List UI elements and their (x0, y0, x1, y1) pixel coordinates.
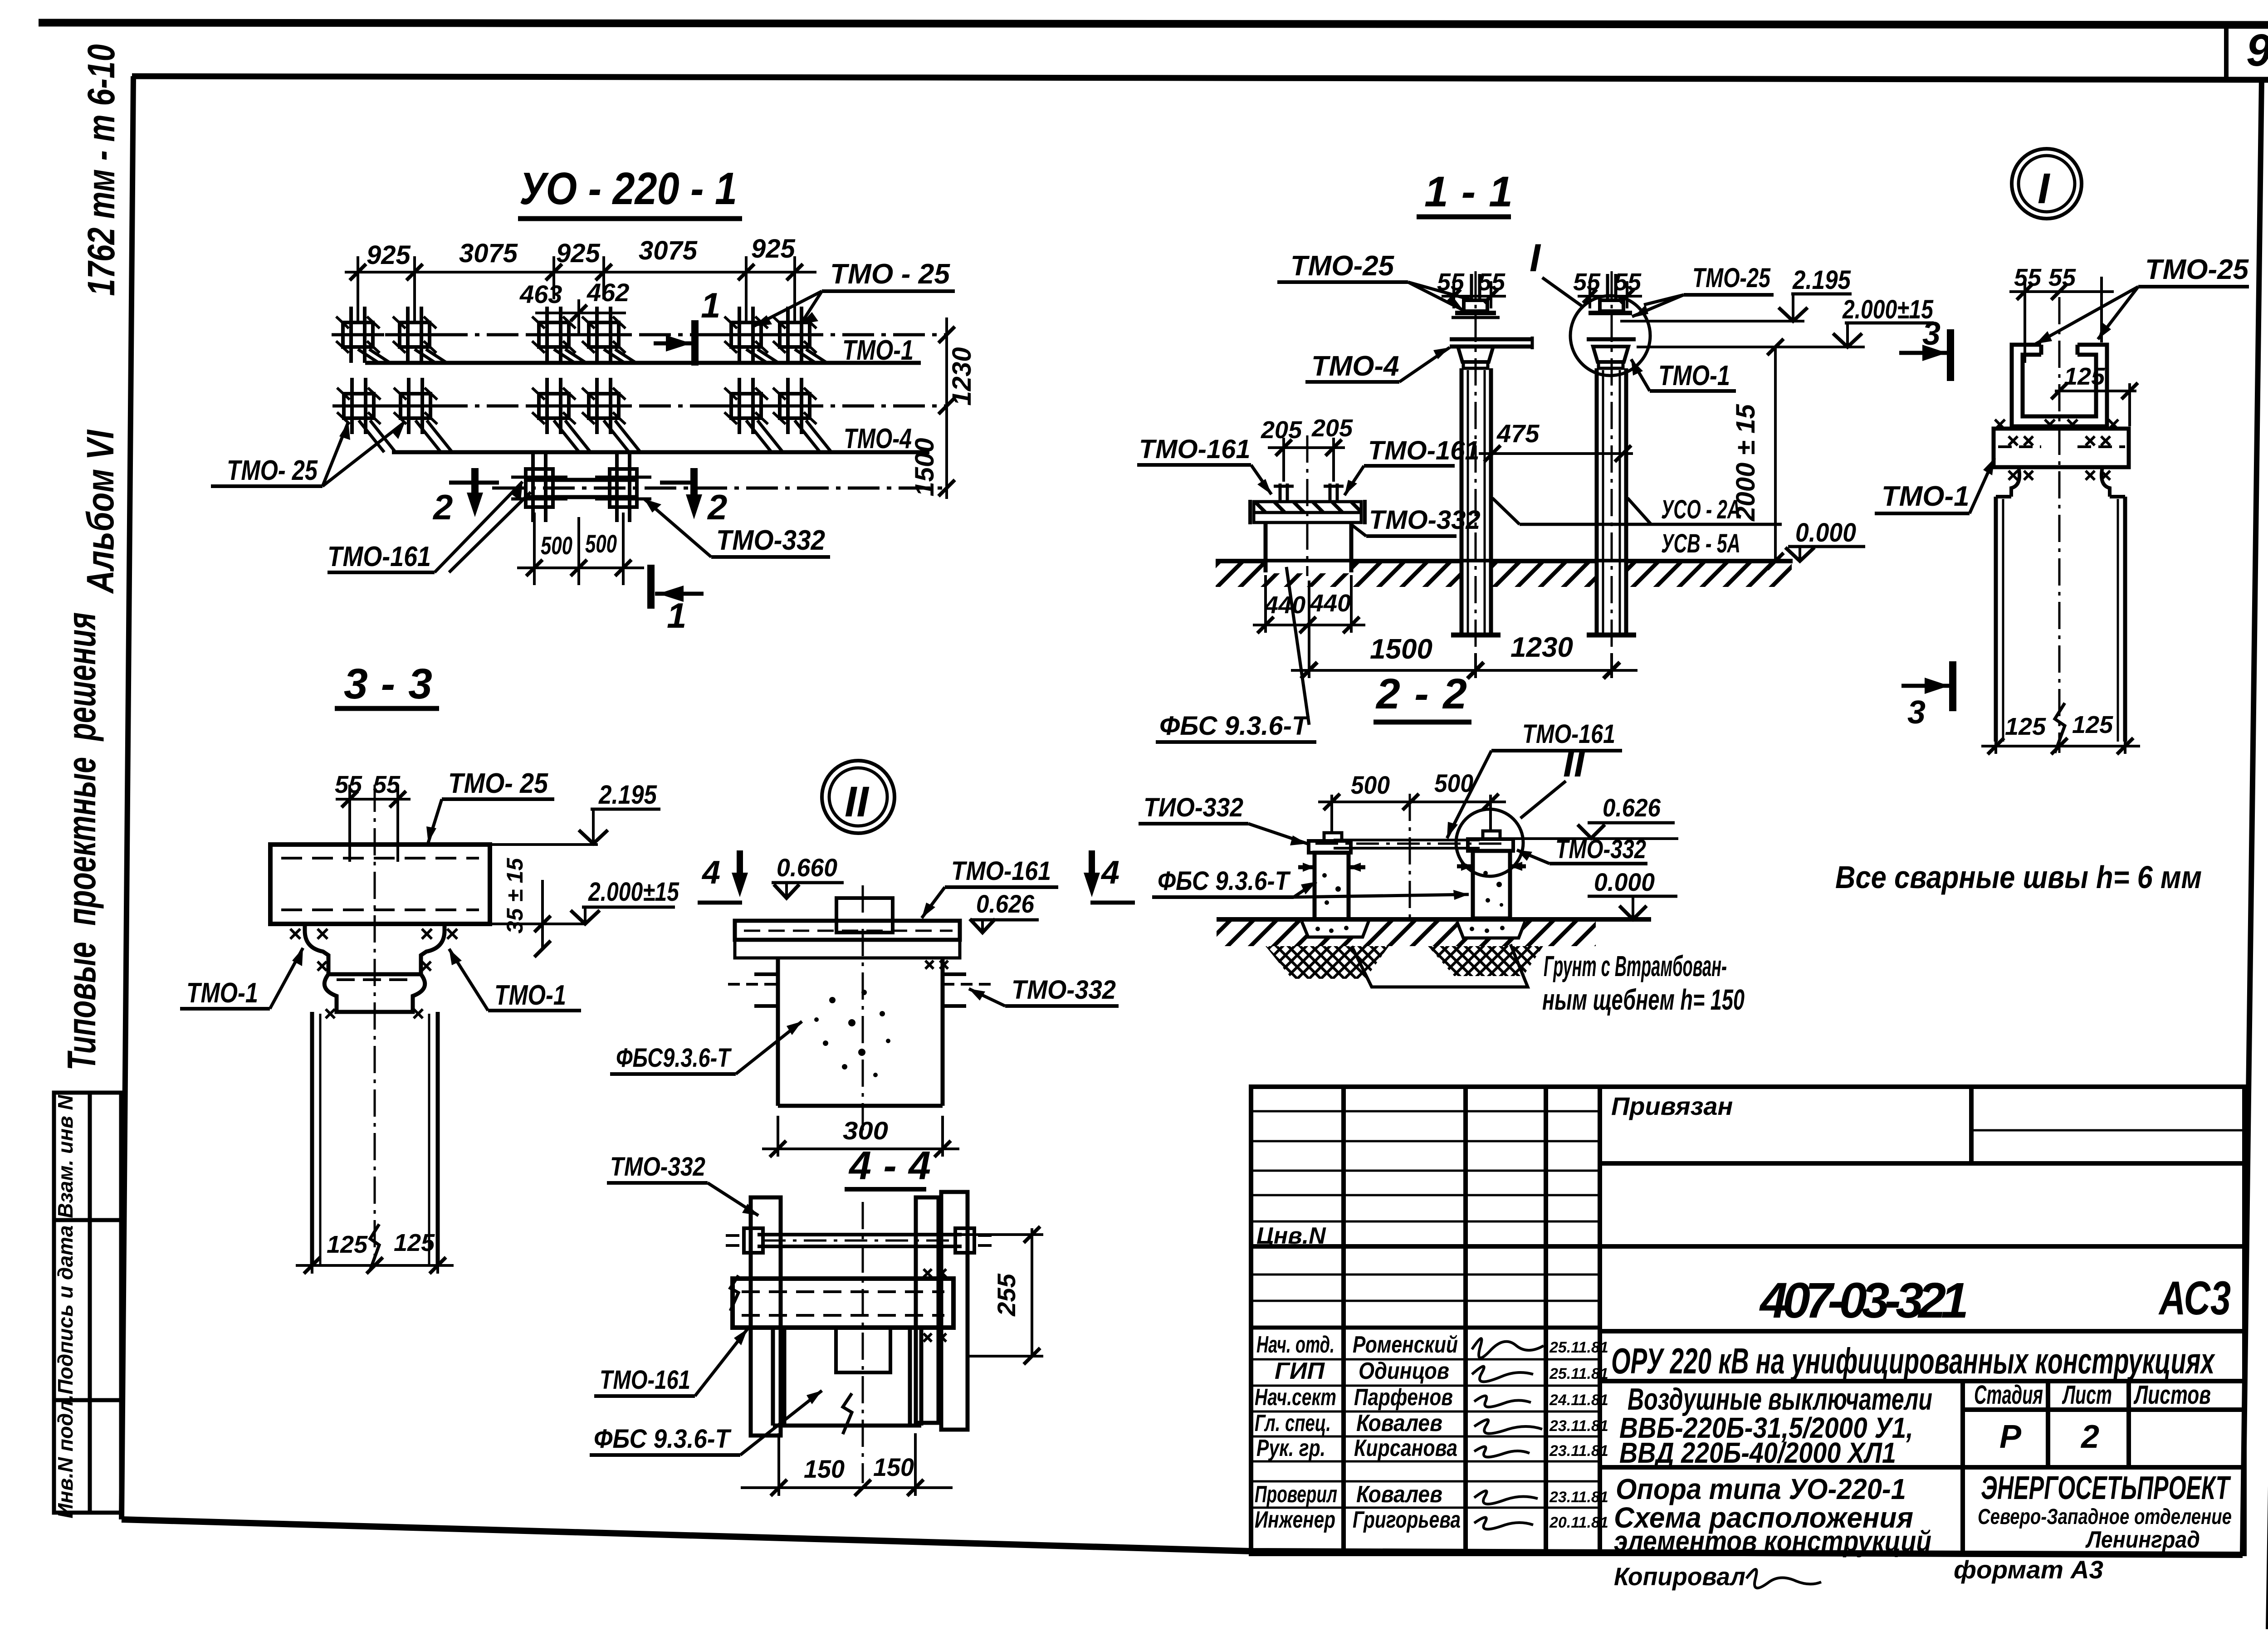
centre axis 4-4 (862, 1202, 864, 1483)
svg-text:3075: 3075 (639, 236, 698, 265)
tie rod (1315, 840, 1506, 848)
svg-text:ТМО-25: ТМО-25 (1290, 250, 1395, 282)
title block texts (1255, 1223, 1608, 1533)
svg-text:ВВД 220Б-40/2000 ХЛ1: ВВД 220Б-40/2000 ХЛ1 (1619, 1436, 1896, 1469)
beam TMO-1 edge line (365, 361, 921, 365)
svg-text:ТМО-25: ТМО-25 (1692, 263, 1771, 293)
section marker 3 bottom (1901, 661, 1953, 711)
svg-text:ТМО-1: ТМО-1 (1882, 481, 1970, 512)
svg-text:ТМО-332: ТМО-332 (1369, 505, 1481, 535)
svg-text:440: 440 (1264, 591, 1305, 619)
dim texts row1 (367, 234, 796, 270)
svg-text:Парфенов: Парфенов (1354, 1384, 1453, 1411)
svg-text:150: 150 (804, 1455, 845, 1483)
svg-text:0.000: 0.000 (1594, 868, 1655, 896)
svg-text:ТМО-161: ТМО-161 (600, 1365, 690, 1395)
dim 255 (1031, 1228, 1033, 1356)
svg-text:ТМО-1: ТМО-1 (1658, 360, 1730, 391)
pier block (778, 958, 943, 1106)
drawing frame bottom line (122, 1519, 2243, 1555)
pier speckles (1322, 871, 1503, 907)
svg-text:1230: 1230 (947, 347, 977, 405)
svg-text:1230: 1230 (1510, 632, 1573, 663)
svg-text:125: 125 (327, 1231, 368, 1258)
svg-text:3: 3 (1922, 316, 1941, 352)
svg-text:Стадия: Стадия (1974, 1380, 2043, 1410)
drawing frame right line (2243, 78, 2262, 1553)
row 2 bolt clusters (332, 378, 385, 434)
right column (1587, 271, 1636, 650)
svg-text:462: 462 (587, 278, 629, 307)
svg-text:УСВ - 5А: УСВ - 5А (1661, 529, 1740, 558)
svg-text:255: 255 (992, 1273, 1021, 1316)
break mark (370, 1224, 379, 1270)
right plates (916, 1192, 968, 1430)
svg-text:Григорьева: Григорьева (1353, 1507, 1461, 1533)
svg-text:УО - 220 - 1: УО - 220 - 1 (519, 163, 737, 214)
svg-text:ТМО-1: ТМО-1 (186, 977, 258, 1009)
svg-text:55: 55 (1573, 269, 1601, 296)
circle II callout (1456, 809, 1523, 876)
svg-text:55: 55 (1614, 269, 1642, 296)
svg-text:ТМО - 25: ТМО - 25 (830, 259, 951, 290)
svg-text:500: 500 (541, 531, 572, 560)
svg-text:23.11.81: 23.11.81 (1549, 1489, 1608, 1506)
svg-text:Цнв.N: Цнв.N (1256, 1223, 1326, 1249)
svg-text:ТМО-161: ТМО-161 (327, 541, 431, 572)
svg-text:407-03-321: 407-03-321 (1759, 1273, 1969, 1328)
signatures squiggles (1472, 1338, 1544, 1529)
stub on top (836, 898, 893, 933)
svg-text:1: 1 (701, 285, 720, 325)
svg-text:ФБС 9.3.6-Т: ФБС 9.3.6-Т (594, 1424, 732, 1454)
svg-text:Рук. гр.: Рук. гр. (1256, 1435, 1325, 1461)
svg-text:0.626: 0.626 (976, 889, 1035, 918)
svg-text:150: 150 (873, 1453, 914, 1481)
svg-text:ТМО-332: ТМО-332 (1555, 835, 1646, 864)
circled I (2012, 149, 2082, 219)
plate beam (735, 921, 960, 958)
svg-text:Ковалев: Ковалев (1356, 1481, 1442, 1508)
beam top line extension right for 2.195 level (490, 843, 598, 846)
weld flags on piers (1298, 866, 1526, 867)
centre axis 2-2 (1409, 794, 1411, 921)
svg-text:125: 125 (2072, 711, 2113, 738)
circled II (822, 761, 894, 833)
svg-text:475: 475 (1496, 419, 1540, 448)
svg-text:2.195: 2.195 (1792, 265, 1851, 295)
leader ticks row2 to beam (359, 420, 831, 452)
channel section (2012, 345, 2107, 426)
svg-text:4 - 4: 4 - 4 (848, 1143, 931, 1188)
dim 55 55 (336, 785, 411, 862)
svg-text:4: 4 (701, 855, 720, 891)
svg-text:ТМО-332: ТМО-332 (610, 1152, 705, 1182)
svg-text:Нач.сект: Нач.сект (1255, 1384, 1336, 1411)
svg-text:2: 2 (707, 487, 727, 527)
svg-text:ТМО-1: ТМО-1 (842, 335, 914, 366)
svg-text:ГИП: ГИП (1275, 1358, 1325, 1384)
weld x marks (1995, 420, 2118, 480)
svg-text:ФБС 9.3.6-Т: ФБС 9.3.6-Т (1159, 711, 1310, 741)
posts below (773, 1328, 921, 1426)
svg-text:23.11.81: 23.11.81 (1549, 1417, 1608, 1435)
plate below channel (1994, 429, 2129, 467)
svg-text:Ленинград: Ленинград (2085, 1527, 2200, 1553)
svg-text:Инженер: Инженер (1255, 1507, 1335, 1533)
section marker 4 right (1090, 850, 1135, 903)
svg-text:ТМО-332: ТМО-332 (716, 525, 825, 556)
svg-text:Роменский: Роменский (1353, 1332, 1458, 1358)
page number box top right (2224, 25, 2229, 78)
svg-text:ОРУ 220 кВ на унифицированных: ОРУ 220 кВ на унифицированных конструкци… (1611, 1341, 2215, 1381)
svg-text:Нач. отд.: Нач. отд. (1256, 1332, 1334, 1358)
svg-text:Грунт с Втрамбован-: Грунт с Втрамбован- (1544, 950, 1727, 982)
beam TMO-4 edge line (392, 450, 929, 454)
pits with rubble dots (1302, 922, 1525, 938)
deep hatch pockets (1266, 946, 1389, 979)
svg-text:Привязан: Привязан (1611, 1092, 1733, 1120)
svg-text:2 - 2: 2 - 2 (1375, 670, 1467, 718)
svg-text:1762 тм - т 6-10: 1762 тм - т 6-10 (80, 44, 122, 296)
svg-text:ТМО-4: ТМО-4 (1311, 351, 1399, 382)
svg-text:Инв.N подл.: Инв.N подл. (54, 1394, 77, 1518)
svg-text:2.195: 2.195 (598, 780, 657, 810)
svg-text:24.11.81: 24.11.81 (1549, 1392, 1608, 1409)
svg-text:3 - 3: 3 - 3 (344, 660, 432, 708)
svg-text:элементов конструкций: элементов конструкций (1614, 1525, 1931, 1558)
concrete speckles (814, 990, 890, 1077)
svg-text:55: 55 (2048, 264, 2076, 291)
svg-text:Типовые проектные решения: Типовые проектные решения (59, 612, 104, 1070)
svg-text:9: 9 (2246, 25, 2268, 76)
svg-text:формат А3: формат А3 (1954, 1555, 2103, 1584)
right pier 2-2 (1468, 831, 1513, 918)
break marks (730, 1275, 738, 1311)
centre axis detail II (862, 885, 864, 1134)
svg-text:Проверил: Проверил (1255, 1481, 1337, 1508)
svg-text:Кирсанова: Кирсанова (1354, 1435, 1457, 1461)
svg-text:463: 463 (519, 280, 562, 308)
svg-text:ТМО-332: ТМО-332 (1012, 975, 1116, 1005)
top rod with nuts (726, 1228, 992, 1253)
svg-text:Взам. инв N: Взам. инв N (54, 1094, 77, 1218)
wide beam (733, 1279, 953, 1328)
svg-text:ТМО-1: ТМО-1 (494, 980, 566, 1011)
bottom shelf line extension (490, 923, 585, 925)
svg-text:I: I (1530, 236, 1541, 280)
svg-text:ЭНЕРГОСЕТЬПРОЕКТ: ЭНЕРГОСЕТЬПРОЕКТ (1981, 1470, 2231, 1506)
ground hatch band (1216, 563, 1792, 587)
svg-text:20.11.81: 20.11.81 (1549, 1514, 1608, 1531)
sheet outer top border line (39, 23, 2268, 25)
column shaft 3-3 (312, 1012, 438, 1265)
dim 55 55 right column (1578, 281, 1642, 308)
svg-text:ТИО-332: ТИО-332 (1144, 793, 1243, 822)
svg-text:55: 55 (335, 771, 362, 798)
top beam (270, 845, 490, 924)
circle detail I on right column top (1570, 296, 1650, 376)
svg-text:205: 205 (1261, 416, 1302, 444)
level line 0.626 (1515, 837, 1678, 840)
svg-text:ТМО-161: ТМО-161 (951, 856, 1051, 886)
svg-text:1 - 1: 1 - 1 (1424, 168, 1513, 216)
svg-text:35 ± 15: 35 ± 15 (502, 858, 528, 934)
note Грунт leader (1352, 944, 1528, 987)
row 2 centerline (334, 405, 948, 408)
section marker 4 left (698, 850, 742, 903)
svg-text:1500: 1500 (1370, 634, 1432, 665)
svg-text:1: 1 (667, 596, 686, 635)
TITLE BLOCK (1251, 1087, 2244, 1591)
svg-text:4: 4 (1100, 855, 1119, 891)
neck (2011, 467, 2110, 497)
stub block below (836, 1328, 890, 1372)
svg-text:АС3: АС3 (2158, 1272, 2231, 1325)
svg-text:ТМО- 25: ТМО- 25 (448, 768, 548, 799)
section marker 2 left (449, 468, 499, 499)
section marker 3 top (1899, 329, 1950, 381)
svg-text:ТМО- 25: ТМО- 25 (227, 455, 318, 486)
svg-text:55: 55 (1478, 269, 1505, 296)
bottom right bolt cluster (595, 454, 651, 522)
svg-text:ТМО-25: ТМО-25 (2145, 254, 2249, 285)
svg-text:Лист: Лист (2062, 1380, 2112, 1410)
svg-text:3: 3 (1907, 694, 1926, 731)
svg-text:55: 55 (373, 771, 401, 798)
svg-text:Подпись и дата: Подпись и дата (54, 1226, 77, 1395)
2000±15 vertical dim (1774, 347, 1777, 561)
dim 55 55 left column (1442, 281, 1506, 308)
svg-text:500: 500 (585, 529, 617, 558)
bottom left bolt cluster (511, 454, 567, 522)
centre axis (374, 785, 376, 1265)
column of detail I (1996, 297, 2125, 753)
svg-text:2: 2 (432, 487, 453, 527)
top dimension line 925/3075/925/3075/925 (345, 256, 816, 324)
svg-text:2.000±15: 2.000±15 (1842, 295, 1933, 324)
break mark (2055, 703, 2065, 753)
right vertical dim 1230/1500 (945, 317, 948, 499)
bottom pair chain line (492, 487, 948, 490)
svg-text:Альбом VI: Альбом VI (79, 430, 122, 594)
drawing frame left line (122, 76, 133, 1519)
svg-text:ТМО-161: ТМО-161 (1139, 435, 1251, 464)
weld x marks on flare (290, 929, 457, 1018)
svg-text:ФБС 9.3.6-Т: ФБС 9.3.6-Т (1158, 866, 1291, 896)
svg-text:925: 925 (751, 234, 796, 264)
dim 55 55 detail I (2009, 277, 2114, 363)
svg-text:Копировал: Копировал (1614, 1562, 1745, 1591)
level line A 2.195 (1620, 320, 1804, 322)
svg-text:Р: Р (1999, 1419, 2022, 1455)
left plate (751, 1197, 781, 1436)
svg-text:440: 440 (1310, 590, 1351, 617)
svg-text:II: II (845, 778, 870, 826)
svg-text:ТМО-161: ТМО-161 (1522, 719, 1615, 749)
weld xxx right (925, 961, 948, 969)
svg-text:925: 925 (556, 239, 601, 268)
ground 2-2 (1217, 917, 1651, 922)
svg-text:0.660: 0.660 (777, 853, 837, 882)
svg-text:25.11.81: 25.11.81 (1549, 1365, 1608, 1382)
mini foundation pier (1266, 523, 1351, 572)
left margin stamp column (54, 1093, 121, 1513)
side angle brackets (728, 974, 994, 1006)
svg-text:25.11.81: 25.11.81 (1549, 1339, 1608, 1356)
row 1 centerline (334, 333, 948, 337)
svg-text:55: 55 (2014, 264, 2042, 291)
section marker 1 top (654, 320, 695, 366)
svg-text:125: 125 (2005, 713, 2046, 740)
svg-text:Гл. спец.: Гл. спец. (1255, 1410, 1331, 1436)
svg-text:125: 125 (2064, 363, 2105, 390)
svg-text:Все сварные швы h= 6 мм: Все сварные швы h= 6 мм (1835, 860, 2202, 895)
section marker 2 right (660, 468, 694, 499)
mini foundation plate TMO-161 (1250, 500, 1365, 524)
svg-text:2: 2 (2080, 1419, 2099, 1455)
svg-text:ФБС9.3.6-Т: ФБС9.3.6-Т (616, 1043, 732, 1073)
svg-text:23.11.81: 23.11.81 (1549, 1442, 1608, 1460)
section marker 1 bottom (651, 565, 704, 609)
svg-text:Листов: Листов (2133, 1380, 2211, 1410)
svg-text:ТМО-4: ТМО-4 (844, 423, 912, 454)
svg-text:УСО - 2А: УСО - 2А (1661, 495, 1740, 524)
beam TMO-4 on left column (1450, 337, 1532, 349)
svg-text:Одинцов: Одинцов (1359, 1358, 1449, 1384)
svg-text:0.000: 0.000 (1795, 518, 1856, 547)
level line B 2.000 (1637, 346, 1865, 348)
mini foundation bolts (1274, 483, 1344, 502)
left column (1451, 271, 1501, 650)
svg-text:ным щебнем h= 150: ным щебнем h= 150 (1542, 983, 1745, 1016)
svg-text:Ковалев: Ковалев (1356, 1410, 1442, 1436)
svg-text:0.626: 0.626 (1603, 793, 1661, 822)
weld xx marks (924, 1269, 946, 1342)
svg-text:500: 500 (1434, 769, 1473, 797)
svg-text:Северо-Западное отделение: Северо-Западное отделение (1978, 1505, 2232, 1529)
svg-text:2.000±15: 2.000±15 (588, 877, 679, 907)
svg-text:300: 300 (843, 1116, 888, 1145)
svg-text:3075: 3075 (459, 239, 518, 268)
drawing frame top line (132, 76, 2268, 80)
leader ticks row1 to beam (358, 349, 827, 363)
left pier 2-2 (1309, 833, 1351, 919)
bottom pair connecting bars (524, 480, 637, 497)
svg-text:125: 125 (394, 1229, 435, 1256)
svg-text:I: I (2038, 165, 2051, 213)
svg-text:925: 925 (367, 240, 411, 270)
svg-text:ТМО-161: ТМО-161 (1368, 436, 1480, 465)
ground line (1216, 559, 1793, 563)
svg-text:500: 500 (1351, 771, 1390, 799)
svg-text:Опора типа УО-220-1: Опора типа УО-220-1 (1616, 1473, 1906, 1505)
cap flare below beam (305, 924, 445, 1012)
row 1 bolt clusters (332, 307, 384, 363)
